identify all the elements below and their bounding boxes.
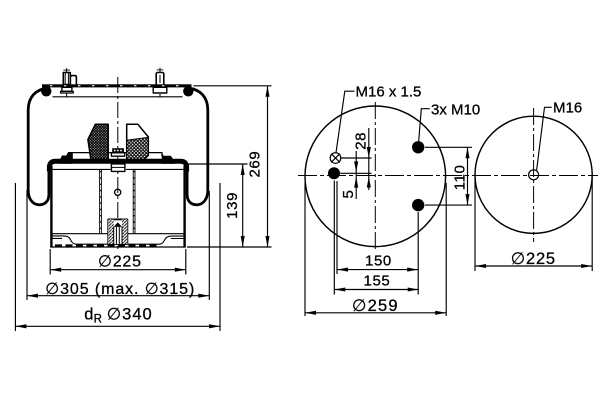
svg-text:28: 28 — [352, 132, 369, 150]
dim 150 line — [337, 269, 418, 271]
svg-text:110: 110 — [451, 165, 468, 191]
stud M16 left (threaded) — [63, 68, 70, 84]
piston skirt top line — [51, 233, 184, 235]
piston plate right shoulder step — [162, 153, 175, 164]
dim 155 line — [334, 289, 418, 291]
dim 225 left line — [50, 269, 186, 271]
rolled plate edge left — [41, 86, 51, 96]
piston skirt hatch dashes — [55, 244, 158, 246]
svg-text:269: 269 — [247, 151, 264, 178]
piston outer wall right — [183, 166, 185, 248]
stud M16 left flange under plate — [61, 87, 74, 97]
svg-text:139: 139 — [224, 192, 241, 219]
svg-text:5: 5 — [340, 190, 357, 199]
svg-text:150: 150 — [365, 253, 392, 270]
piston inner wall left — [100, 170, 102, 234]
fitting line to 28-dim — [341, 157, 372, 159]
svg-text:∅225: ∅225 — [511, 250, 556, 268]
dim 225 left extensions — [50, 249, 186, 275]
bumper cap base — [111, 153, 124, 156]
M10 bolt dot top — [412, 141, 424, 153]
leader M16 right — [537, 107, 552, 170]
right circle 225 extensions — [475, 177, 592, 271]
stud right flange under plate — [153, 87, 167, 97]
svg-text:d: d — [84, 305, 93, 323]
svg-text:155: 155 — [364, 273, 391, 290]
extensions below middle circle — [334, 181, 418, 295]
blind hole dot left — [328, 167, 340, 179]
right dim 225 line — [475, 265, 592, 267]
rolled plate edge right — [183, 86, 193, 96]
piston center stud (hatched) — [108, 219, 127, 244]
M10 bolt dot bottom — [412, 199, 424, 211]
rubber bumper right half — [127, 124, 149, 160]
dot line to 5-dim — [340, 172, 371, 174]
bumper center knurled cap — [112, 148, 124, 153]
dim 139 line — [242, 164, 244, 247]
piston plate left shoulder step — [59, 153, 73, 164]
leader 3x M10 — [419, 109, 430, 142]
piston interior top line — [53, 168, 184, 170]
dim 259 line — [305, 312, 446, 314]
dim 139 arrows — [241, 164, 245, 175]
dim 139 extension top — [187, 163, 248, 165]
air fitting stub — [70, 76, 76, 85]
dim 269 extension top — [194, 85, 272, 87]
dots to 110-dim lines — [425, 147, 472, 205]
dim bottom extension line — [187, 246, 272, 248]
top plate (bead plate) — [42, 84, 192, 87]
M16 center hole — [529, 170, 539, 180]
svg-text:∅225: ∅225 — [98, 253, 142, 270]
dim 269 line — [267, 86, 269, 247]
vertical centerline right circle — [533, 108, 535, 242]
bellows outer contour right — [187, 88, 208, 205]
piston outer wall left — [50, 166, 52, 248]
dim 340 extensions — [15, 183, 220, 331]
svg-text:R: R — [94, 314, 102, 326]
dim 305 extensions — [27, 190, 209, 300]
horizontal centerline through both circles — [298, 175, 598, 177]
rubber bumper left half (crosshatched) — [88, 124, 108, 160]
dim 305 line — [27, 295, 209, 297]
circle 225 outline — [475, 116, 592, 233]
piston bottom line — [51, 246, 184, 248]
circle 259 outline — [305, 106, 446, 247]
svg-text:∅259: ∅259 — [352, 297, 399, 315]
piston skirt stepped sheet — [51, 236, 184, 244]
piston inner wall right — [133, 170, 135, 234]
vertical centerline middle circle — [374, 102, 376, 252]
dim 269 arrows — [265, 86, 269, 97]
svg-text:3x M10: 3x M10 — [431, 101, 480, 118]
piston top clamped band (thick) — [49, 161, 186, 171]
svg-text:∅305 (max. ∅315): ∅305 (max. ∅315) — [45, 281, 195, 298]
M16x1.5 air fitting symbol (circle with X) — [330, 153, 341, 164]
centerline left view — [117, 77, 119, 252]
piston center hole — [115, 189, 121, 195]
dim 28 line — [368, 128, 370, 190]
piston top plate top line — [68, 153, 162, 157]
svg-text:M16: M16 — [553, 100, 582, 117]
svg-text:∅340: ∅340 — [107, 305, 153, 323]
bellows top line — [53, 96, 183, 98]
svg-text:M16 x 1.5: M16 x 1.5 — [356, 83, 422, 100]
stud right plain — [156, 68, 164, 86]
dim 5 line — [355, 151, 357, 199]
dim 340 line — [15, 325, 220, 327]
dim 110 line — [467, 147, 469, 205]
piston bolt below band — [111, 164, 125, 172]
leader M16x1.5 — [336, 91, 355, 152]
bellows outer contour left — [28, 88, 49, 205]
